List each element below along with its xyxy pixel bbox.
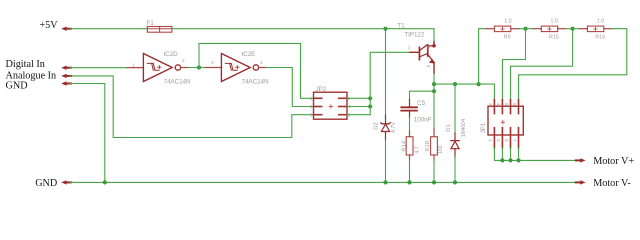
svg-text:D1: D1: [446, 124, 452, 131]
wire C5 to R14: [409, 118, 411, 133]
wire D2 to GND rail: [385, 140, 387, 182]
wire R10 upper: [433, 84, 435, 129]
junction GND in: [103, 180, 107, 184]
wire D1 to GND rail: [454, 157, 456, 183]
wire D2 upper drop: [385, 29, 387, 116]
output terminal Motor V-: [576, 178, 632, 189]
junction V+ bus a: [500, 158, 504, 162]
capacitor C5: [401, 100, 431, 124]
wire GND rail / Motor V-: [71, 181, 577, 183]
svg-text:3: 3: [496, 139, 501, 142]
svg-text:100nF: 100nF: [414, 117, 432, 124]
wire IC2D out to IC2E in: [189, 67, 206, 69]
junction GND R14: [407, 180, 411, 184]
svg-text:74AC14N: 74AC14N: [164, 79, 191, 86]
wire JP1 pin3 drop: [501, 148, 503, 161]
svg-text:4: 4: [496, 103, 501, 106]
svg-text:+5V: +5V: [39, 20, 58, 31]
svg-text:6: 6: [504, 103, 509, 106]
svg-text:3: 3: [211, 60, 214, 65]
wire +5V rail left: [71, 28, 148, 30]
wire bus to JP1 pin1 riser: [493, 84, 495, 100]
svg-text:7: 7: [512, 139, 517, 142]
svg-text:1: 1: [310, 96, 313, 101]
resistor R15: [533, 18, 566, 40]
input terminal GND left: [6, 80, 72, 91]
wire R15 to R16: [566, 28, 579, 30]
svg-text:2: 2: [182, 58, 185, 63]
wire Analogue In path: [70, 76, 314, 138]
wire R10 to GND rail: [433, 160, 435, 182]
op-amp U2 inverter IC2E: [205, 51, 269, 85]
resistor R10: [425, 129, 444, 161]
svg-text:2: 2: [426, 46, 431, 49]
junction GND D2: [383, 180, 387, 184]
svg-text:5: 5: [504, 139, 509, 142]
wire R14 to GND rail: [409, 160, 411, 182]
wire bypass IC2D output to JP2 pin1: [199, 43, 314, 98]
wire JP1 bottom bus to Motor V+: [494, 148, 576, 161]
svg-text:Motor V+: Motor V+: [593, 156, 634, 167]
svg-text:100: 100: [438, 145, 444, 154]
input terminal Digital In: [6, 59, 72, 70]
resistor R14: [402, 132, 421, 161]
svg-text:Digital In: Digital In: [6, 59, 45, 70]
svg-text:4: 4: [260, 60, 263, 65]
svg-text:JP1: JP1: [480, 122, 487, 133]
svg-text:4.7: 4.7: [414, 146, 420, 153]
fuse F1: [146, 20, 172, 32]
svg-text:T1: T1: [397, 23, 405, 30]
svg-text:1.0: 1.0: [597, 18, 604, 24]
resistor R9: [486, 18, 519, 40]
diode D1 1N4004: [446, 119, 467, 157]
wire tap4 staircase: [519, 29, 627, 100]
svg-text:1.0: 1.0: [504, 18, 511, 24]
wire +5V rail middle: [172, 28, 434, 30]
svg-text:1: 1: [132, 63, 135, 68]
junction R15/R16 tap: [571, 27, 575, 31]
resistor R16: [579, 18, 612, 40]
wire tap2 staircase: [502, 29, 525, 100]
svg-text:8: 8: [512, 103, 517, 106]
connector JP1: [480, 100, 523, 148]
svg-text:R16: R16: [595, 35, 605, 41]
svg-text:4.7V: 4.7V: [391, 122, 397, 133]
svg-text:1.0: 1.0: [551, 18, 558, 24]
svg-text:R10: R10: [425, 141, 431, 152]
junction R9/R15 tap: [523, 27, 527, 31]
wire JP1 pin5 drop: [510, 148, 512, 161]
wire Digital In to IC2D: [70, 67, 127, 69]
supply terminal +5V: [39, 20, 71, 31]
wire R9 feed riser: [479, 29, 487, 84]
svg-text:GND: GND: [35, 178, 57, 189]
svg-text:74AC14N: 74AC14N: [242, 79, 269, 86]
junction +5V/D2: [383, 27, 387, 31]
svg-text:R14: R14: [402, 140, 408, 151]
svg-text:IC2D: IC2D: [164, 51, 179, 58]
svg-text:2: 2: [488, 103, 493, 106]
junction GND R10: [432, 180, 436, 184]
svg-text:3: 3: [426, 65, 431, 68]
input terminal Analogue In: [6, 71, 72, 82]
wire JP2 pin4 to common: [347, 106, 370, 108]
wire D1 upper: [454, 84, 456, 133]
junction bus/D1: [453, 82, 457, 86]
junction JP2 common upper: [368, 96, 372, 100]
wire IC2E output to JP2 pin3: [267, 68, 314, 107]
wire tap3 staircase: [511, 29, 573, 100]
op-amp U1 inverter IC2D: [127, 51, 191, 85]
junction GND D1: [453, 180, 457, 184]
svg-text:R15: R15: [549, 35, 559, 41]
svg-text:GND: GND: [6, 80, 28, 91]
svg-text:1N4004: 1N4004: [461, 119, 467, 137]
svg-text:1: 1: [488, 139, 493, 142]
svg-text:R9: R9: [504, 35, 511, 41]
wire R9 to R15: [519, 28, 533, 30]
junction node IC2D output: [197, 65, 201, 69]
wire collector drop: [433, 29, 435, 43]
junction V+ bus b: [508, 158, 512, 162]
wire GND In drop: [70, 84, 105, 183]
diode D2 zener 4.7V: [374, 115, 397, 141]
wire C5 tap: [410, 91, 435, 100]
connector JP2: [310, 86, 351, 119]
junction C5 tap: [432, 89, 436, 93]
svg-text:TIP122: TIP122: [404, 31, 425, 38]
junction emitter/R10: [432, 82, 436, 86]
svg-text:1: 1: [408, 45, 411, 50]
svg-text:5: 5: [310, 112, 313, 117]
wire JP2 pin2 to common: [347, 97, 370, 99]
wire emitter to bus: [433, 74, 435, 84]
svg-text:Motor V-: Motor V-: [593, 178, 631, 189]
wire JP2 common to T1 base: [370, 52, 410, 114]
svg-text:D2: D2: [374, 122, 380, 129]
wire JP1 pin7 drop: [518, 148, 520, 161]
junction V+ bus c: [516, 158, 520, 162]
svg-text:IC2E: IC2E: [242, 51, 256, 58]
junction bus/R9 feed: [477, 82, 481, 86]
svg-text:C5: C5: [417, 100, 426, 107]
wire emitter bus: [434, 83, 494, 85]
output terminal Motor V+: [576, 156, 635, 167]
ground terminal GND bottom: [35, 178, 71, 189]
junction JP2 common lower: [368, 104, 372, 108]
svg-text:3: 3: [310, 104, 313, 109]
wire JP2 pin6 to common: [347, 114, 370, 116]
transistor Q1 T1 TIP122: [397, 23, 436, 74]
svg-text:F1: F1: [146, 20, 154, 27]
